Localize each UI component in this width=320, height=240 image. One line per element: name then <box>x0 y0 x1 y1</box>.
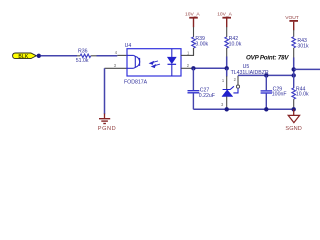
ground PGND <box>98 114 116 133</box>
capacitor C27 <box>188 68 215 109</box>
svg-text:FOD817A: FOD817A <box>124 80 148 86</box>
cathode pin <box>226 76 228 89</box>
bottom rail wire <box>193 108 293 110</box>
resistor R42 <box>225 27 242 57</box>
wire pin2 row <box>192 67 227 69</box>
ref bend wire <box>233 88 238 93</box>
power port VOUT <box>285 15 299 30</box>
pin 4 stub <box>117 54 127 56</box>
junction dot feedback <box>292 67 296 71</box>
svg-text:10V_A: 10V_A <box>185 11 200 17</box>
resistor R39 <box>192 27 209 55</box>
svg-text:BLK: BLK <box>18 54 28 60</box>
junction dot R42/U5 <box>225 66 229 70</box>
wire to right edge <box>294 68 320 70</box>
OVP rail wire <box>238 74 294 76</box>
light arrows <box>150 61 160 68</box>
svg-text:U4: U4 <box>125 43 132 49</box>
pin 1 stub <box>181 54 194 56</box>
capacitor C29 <box>261 75 287 109</box>
junction dot C29 bottom <box>264 107 268 111</box>
ground SGND <box>285 109 302 132</box>
svg-text:OVP Point: 78V: OVP Point: 78V <box>246 54 289 61</box>
wire R43 down <box>293 58 295 76</box>
junction dot OVP right <box>292 73 296 77</box>
power port 10V_A (R39) <box>185 11 200 27</box>
svg-text:3.00k: 3.00k <box>195 42 208 48</box>
svg-text:10.0k: 10.0k <box>229 41 242 47</box>
svg-text:100nF: 100nF <box>272 92 287 98</box>
svg-text:51.0k: 51.0k <box>76 58 89 64</box>
LED of U4 <box>168 49 177 76</box>
resistor R36 <box>76 48 97 64</box>
ref pin <box>237 76 239 85</box>
resistor R43 <box>292 30 309 58</box>
cathode bar with tick <box>223 86 234 89</box>
wire R36 to U4 pin 4 <box>97 55 118 57</box>
svg-text:SGND: SGND <box>285 126 302 132</box>
svg-text:301k: 301k <box>297 43 309 49</box>
optocoupler U4 <box>124 43 181 86</box>
pin 3 stub <box>105 67 128 69</box>
svg-text:PGND: PGND <box>98 126 116 132</box>
wire R42 to node <box>226 57 228 69</box>
junction dot SGND <box>292 107 296 111</box>
svg-text:10.0k: 10.0k <box>296 92 309 98</box>
svg-text:10V_A: 10V_A <box>217 11 232 17</box>
phototransistor of U4 <box>127 55 140 68</box>
wire node down to U5 <box>226 68 228 76</box>
power port 10V_A (R42) <box>217 11 232 27</box>
svg-text:0.22uF: 0.22uF <box>199 93 215 99</box>
shunt regulator U5 TL431 <box>221 64 269 109</box>
resistor R44 <box>292 75 309 109</box>
svg-text:R36: R36 <box>78 48 88 54</box>
anode pin <box>226 97 228 110</box>
triangle <box>222 90 233 97</box>
junction dot U5 anode <box>225 107 229 111</box>
wire BLK to R36 <box>41 55 77 57</box>
port BLK <box>13 53 37 60</box>
wire pin3 down to PGND <box>104 68 106 114</box>
junction dot C27 top <box>191 66 195 70</box>
junction dot C29 top <box>264 73 268 77</box>
pin 2 stub <box>181 67 192 69</box>
junction dot BLK <box>37 54 41 58</box>
